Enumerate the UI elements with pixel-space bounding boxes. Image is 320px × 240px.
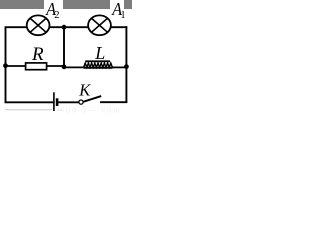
wire: junction to inductor xyxy=(64,66,85,68)
lamp A1 xyxy=(88,15,111,35)
wire: middle vertical xyxy=(63,26,65,67)
background xyxy=(0,0,132,115)
battery long plate xyxy=(53,92,55,111)
wire: between lamps xyxy=(49,26,90,28)
inductor baseline xyxy=(84,67,113,69)
node: middle right xyxy=(124,64,129,69)
inductor core bar xyxy=(85,60,110,62)
gray header band middle xyxy=(63,0,110,9)
svg-text:L: L xyxy=(94,43,105,63)
svg-text:oo·5—·com: oo·5—·com xyxy=(66,106,121,115)
watermark underline xyxy=(5,109,52,111)
wire: bottom left horizontal xyxy=(5,101,54,103)
node: middle center junction xyxy=(62,64,67,69)
svg-text:2: 2 xyxy=(54,10,59,21)
battery short plate xyxy=(56,98,59,106)
svg-text:K: K xyxy=(78,81,91,100)
wire: top left horizontal xyxy=(5,26,28,28)
lamp A2 xyxy=(27,15,50,35)
gray header band left xyxy=(0,0,44,9)
wire: left vertical xyxy=(5,27,7,102)
wire: inductor to right xyxy=(112,66,127,68)
wire: R to center junction xyxy=(47,65,64,67)
wire: right vertical xyxy=(125,26,127,102)
wire: top right horizontal xyxy=(110,26,127,28)
node: top junction xyxy=(62,25,67,30)
wire: switch to bottom right corner xyxy=(100,101,127,103)
inductor L coil xyxy=(84,63,113,67)
svg-text:R: R xyxy=(31,44,44,65)
wire: battery to switch xyxy=(58,101,78,103)
switch K pivot xyxy=(79,100,83,104)
switch K lever xyxy=(83,96,101,102)
node: middle left xyxy=(3,63,8,68)
wire: middle row left xyxy=(6,65,27,67)
svg-text:1: 1 xyxy=(120,10,125,21)
resistor R xyxy=(26,63,47,70)
gray header band right xyxy=(124,0,132,9)
